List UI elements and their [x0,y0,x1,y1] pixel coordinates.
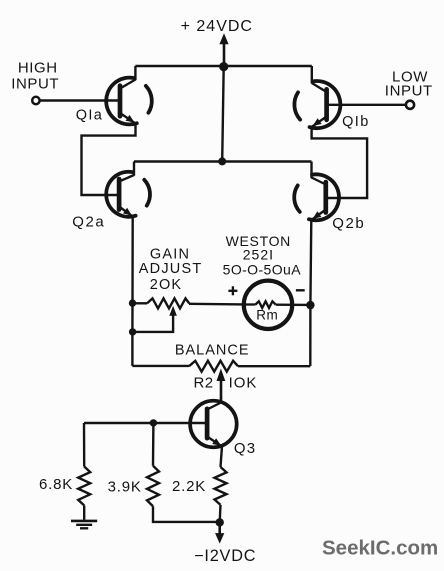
wire gain pot to meter [189,303,244,306]
svg-text:GAIN: GAIN [150,247,190,263]
junction gain wiper [129,328,136,335]
svg-text:2.2K: 2.2K [172,478,206,495]
svg-text:Q3: Q3 [234,440,256,457]
junction -12V node [216,518,224,526]
junction base rail / 3.9K [150,419,157,426]
transistor Q1b base bar [324,89,329,120]
wire Q3 base rail [84,422,207,424]
wire balance right [238,365,310,367]
svg-text:3.9K: 3.9K [108,479,142,496]
transistor Q2a collector [119,175,134,182]
potentiometer BALANCE R2 10K zigzag [189,361,238,372]
transistor Q1a collector [120,80,136,89]
wire center vertical [222,67,224,162]
transistor Q2b circle [309,174,339,220]
terminal HIGH INPUT [32,97,39,104]
meter Rm circle [244,281,292,329]
svg-text:2OK: 2OK [150,277,183,293]
svg-text:ADJUST: ADJUST [139,261,203,277]
svg-text:QIb: QIb [342,114,370,130]
svg-text:IOK: IOK [229,375,258,392]
svg-text:Q2b: Q2b [332,215,365,232]
wire 3.9K top [152,423,155,466]
transistor Q2b collector [312,178,326,185]
wire 6.8K to ground [83,505,85,519]
wire Q1b base lead [327,104,406,106]
resistor 6.8K [78,467,90,506]
transistor Q2b emitter [311,210,325,221]
meter plus sign [228,290,237,292]
junction +24V rail [219,62,228,71]
wire Q3 emitter down [221,446,223,467]
wire Q1a emitter to Q2a base [82,123,136,196]
junction meter right [306,301,314,309]
wire mid rail [134,160,312,163]
svg-text:QIa: QIa [76,108,104,124]
svg-text:+ 24VDC: + 24VDC [181,18,253,35]
wire Q1a base lead [40,99,120,101]
transistor Q3 collector [207,403,221,410]
svg-text:6.8K: 6.8K [39,476,73,493]
terminal LOW INPUT [406,101,414,109]
power -12VDC arrow [218,522,221,536]
svg-text:INPUT: INPUT [385,83,433,100]
svg-text:−I2VDC: −I2VDC [194,547,256,565]
wire 6.8K top [83,423,86,467]
junction gain pot left [129,299,136,306]
svg-text:SeekIC.com: SeekIC.com [322,537,438,560]
transistor Q1a circle [106,78,137,125]
transistor Q2a circle [106,172,135,217]
potentiometer GAIN 20K zigzag [147,298,189,308]
wire Q2b emitter down [310,219,311,366]
wire balance left [132,365,189,367]
svg-text:Q2a: Q2a [72,214,105,231]
power +24VDC arrow [223,42,226,67]
svg-text:R2: R2 [194,375,214,392]
potentiometer GAIN wiper arrow [169,306,177,316]
transistor Q3 circle [190,401,237,448]
transistor Q3 emitter [207,437,222,447]
transistor Q1a emitter [120,113,136,124]
meter minus sign [296,289,305,291]
wire Q2a emitter down [131,216,134,366]
transistor Q1b circle [310,81,341,128]
transistor Q2a base bar [117,179,122,210]
junction mid rail [218,157,226,165]
svg-text:252I: 252I [243,247,274,263]
wire 3.9K bottom [153,506,220,522]
transistor Q1a base bar [118,86,123,117]
svg-text:INPUT: INPUT [11,76,59,93]
transistor Q1b emitter [312,117,327,128]
svg-text:Rm: Rm [256,308,278,323]
resistor 2.2K [215,467,227,505]
wire top rail [135,65,311,68]
wire Q1b emitter to Q2b base [312,126,368,198]
transistor Q2a emitter [119,207,133,217]
transistor Q1b collector [312,83,327,92]
potentiometer BALANCE wiper arrow [217,369,226,382]
transistor Q2b base bar [323,182,328,213]
wire gain pot left [133,302,148,304]
transistor Q3 base bar [205,409,210,438]
resistor 3.9K [147,466,159,507]
svg-text:5O-O-5OuA: 5O-O-5OuA [223,261,302,277]
meter Rm internal resistor [244,303,255,305]
ground [71,520,97,523]
svg-text:BALANCE: BALANCE [175,342,250,358]
svg-text:HIGH: HIGH [18,60,58,77]
wire 2.2K bottom [218,505,221,523]
